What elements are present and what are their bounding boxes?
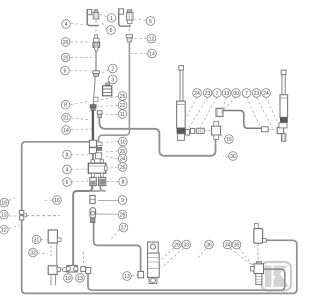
- leader line 13: [134, 38, 147, 40]
- callout 10: [64, 274, 73, 283]
- hose from bracket2 elbow down and left to stack: [99, 41, 130, 142]
- svg-text:21: 21: [63, 116, 69, 122]
- svg-text:6: 6: [66, 180, 69, 186]
- left cylinder body: [177, 101, 186, 140]
- chain fitting a: [190, 128, 194, 133]
- svg-text:11: 11: [120, 112, 125, 118]
- assembly dashes below F2: [129, 24, 131, 34]
- callout 13: [76, 274, 85, 283]
- callout 3: [109, 75, 118, 84]
- leader line 17: [103, 113, 118, 116]
- leader line 20: [106, 157, 118, 159]
- callout 34: [118, 154, 127, 163]
- bracket B1: [87, 10, 99, 26]
- svg-text:20: 20: [63, 56, 69, 62]
- dashes: [205, 130, 211, 132]
- chain fitting b: [197, 128, 205, 133]
- leader line 33: [41, 239, 48, 242]
- svg-text:30: 30: [233, 91, 239, 97]
- leader line 48: [247, 97, 261, 126]
- elbow above cross: [216, 108, 223, 116]
- plug fitting PF: [97, 111, 102, 118]
- leader line 16: [97, 106, 118, 107]
- svg-text:23: 23: [254, 91, 260, 97]
- line below nut N1: [93, 76, 95, 104]
- leader line 21: [107, 167, 118, 169]
- svg-text:13: 13: [124, 274, 130, 280]
- callout 22: [118, 101, 127, 110]
- svg-text:16: 16: [54, 198, 60, 204]
- elbow at hose end near bracket: [138, 271, 144, 277]
- callout 1: [107, 13, 116, 22]
- right cylinder rod: [281, 70, 286, 95]
- svg-text:26: 26: [63, 40, 69, 46]
- svg-text:33: 33: [184, 243, 190, 249]
- svg-text:8: 8: [66, 153, 69, 159]
- svg-text:15: 15: [226, 137, 232, 143]
- callout 32: [29, 248, 38, 257]
- callout 13: [123, 272, 132, 281]
- nut N2 dark: [90, 105, 96, 111]
- callout 5: [146, 17, 155, 26]
- dashes to right cylinder elbow: [269, 129, 277, 131]
- leader line 34: [38, 252, 49, 255]
- svg-text:7: 7: [245, 91, 248, 97]
- assembly dashes below F1: [95, 20, 97, 35]
- leader line 52: [223, 156, 229, 157]
- callout 30: [232, 89, 241, 98]
- callout 2: [109, 64, 118, 73]
- svg-text:31: 31: [34, 238, 40, 244]
- svg-text:5: 5: [110, 28, 113, 34]
- left cylinder rod: [179, 66, 184, 102]
- tall box accumulator: [48, 230, 61, 266]
- svg-text:36: 36: [230, 154, 236, 160]
- leader line 10: [134, 19, 146, 21]
- callout 4: [62, 20, 71, 29]
- leader line 47: [223, 97, 237, 110]
- callout 36: [229, 152, 238, 161]
- leader line 45: [200, 97, 217, 127]
- port fitting right below valve: [98, 177, 105, 185]
- svg-text:5: 5: [149, 19, 152, 25]
- leader line 6: [71, 118, 90, 120]
- hose from gauge area down right to elbow near bracket: [94, 223, 141, 272]
- leader line 40: [197, 249, 206, 260]
- leader line 44: [189, 97, 208, 128]
- valve block VB: [88, 160, 107, 177]
- leader line 8: [100, 15, 107, 17]
- svg-text:24: 24: [194, 91, 200, 97]
- leader line 30: [9, 197, 18, 201]
- svg-text:27: 27: [121, 226, 127, 232]
- leader lines: [70, 15, 147, 182]
- callout circles: [0, 13, 270, 282]
- nut N1: [93, 71, 100, 76]
- leader line 26: [72, 154, 89, 157]
- callout 7: [213, 89, 222, 98]
- leader line 49: [257, 97, 273, 128]
- gauge cylinder: [90, 208, 96, 223]
- callout 13: [222, 89, 231, 98]
- leader line 11: [100, 70, 109, 74]
- svg-text:29: 29: [174, 243, 180, 249]
- cross fitting: [212, 122, 221, 140]
- bottom right valve: [250, 261, 263, 284]
- line below pump: [95, 51, 97, 70]
- callout 24: [193, 89, 202, 98]
- callout 34: [223, 240, 232, 249]
- link to valve block: [92, 154, 94, 163]
- svg-text:7: 7: [216, 91, 219, 97]
- svg-text:23: 23: [205, 91, 211, 97]
- watermark logo: [262, 262, 292, 291]
- callout 8: [63, 150, 72, 159]
- svg-text:35: 35: [234, 243, 240, 249]
- tee T1: [89, 140, 102, 147]
- svg-text:4: 4: [65, 22, 68, 28]
- leader line 4: [70, 70, 91, 72]
- svg-text:6: 6: [64, 69, 67, 75]
- fitting F1 on bracket B1: [93, 10, 99, 19]
- callout 25: [118, 147, 127, 156]
- leader line 38: [159, 248, 175, 262]
- callout 6: [61, 66, 70, 75]
- callout 23: [252, 89, 261, 98]
- callout 15: [225, 135, 234, 144]
- box2 pump bottom: [48, 266, 66, 286]
- callout 4: [63, 165, 72, 174]
- leader line 42: [239, 248, 255, 268]
- leader line 5: [71, 102, 89, 105]
- svg-text:1: 1: [110, 16, 113, 22]
- leader line 29: [45, 199, 52, 202]
- callout 8: [119, 177, 128, 186]
- leader line 27: [72, 168, 88, 171]
- svg-text:32: 32: [30, 251, 36, 257]
- callout 26: [61, 38, 70, 47]
- svg-text:16: 16: [2, 201, 8, 207]
- svg-text:14: 14: [63, 128, 69, 134]
- callout 28: [118, 210, 127, 219]
- callout 14: [148, 49, 157, 58]
- leader line 3: [71, 57, 93, 59]
- leader line 14: [131, 53, 147, 55]
- leader line 50: [266, 97, 280, 126]
- leader line 2: [71, 41, 91, 43]
- right cylinder elbow: [277, 127, 286, 141]
- leader line 22: [107, 181, 119, 183]
- callout 8: [61, 100, 70, 109]
- svg-text:25: 25: [120, 94, 126, 100]
- callout 23: [203, 89, 212, 98]
- callout 5: [107, 26, 116, 35]
- leader line 1: [71, 23, 87, 25]
- leader line 15: [99, 97, 118, 101]
- callout 33: [182, 240, 191, 249]
- elbow fitting E2 top of hose: [126, 35, 132, 42]
- callout 11: [118, 110, 127, 119]
- svg-text:13: 13: [224, 91, 230, 97]
- small fitting SF: [94, 97, 98, 101]
- callout 10: [119, 137, 128, 146]
- leader line 18: [104, 142, 119, 143]
- callout 29: [173, 240, 182, 249]
- svg-text:22: 22: [120, 103, 126, 109]
- leader line 28: [72, 181, 89, 182]
- svg-text:13: 13: [77, 276, 83, 282]
- callout 26: [118, 163, 127, 172]
- svg-text:12: 12: [1, 228, 7, 234]
- port fitting left below valve: [90, 177, 96, 185]
- hose from valve left port looping down to chain cross: [73, 186, 92, 266]
- chain small fitting: [81, 267, 86, 272]
- svg-text:3: 3: [111, 78, 114, 84]
- svg-text:8: 8: [64, 103, 67, 109]
- leader line 37: [132, 275, 138, 276]
- svg-text:2: 2: [111, 67, 114, 73]
- leader line 9: [101, 22, 107, 29]
- bottom right box component: [254, 224, 266, 263]
- leader line 51: [221, 134, 226, 141]
- chain cross fitting: [66, 265, 78, 272]
- dashes below gauge: [82, 252, 84, 264]
- svg-text:34: 34: [225, 243, 231, 249]
- callout 12: [147, 34, 156, 43]
- chain elbow fitting: [86, 268, 91, 274]
- svg-text:8: 8: [122, 180, 125, 186]
- battery box BB: [103, 83, 112, 96]
- callout 36: [205, 240, 214, 249]
- leader line 35: [69, 272, 71, 274]
- right cylinder body: [279, 95, 288, 128]
- elbow stub from right port: [89, 186, 106, 191]
- dashes chain: [61, 268, 67, 270]
- callout 13: [0, 210, 8, 219]
- svg-text:26: 26: [120, 165, 126, 171]
- dashed line right of tee: [26, 215, 60, 217]
- svg-text:10: 10: [65, 276, 71, 282]
- svg-text:28: 28: [120, 213, 126, 219]
- callout 25: [118, 92, 127, 101]
- callout 12: [0, 225, 8, 234]
- bracket B2: [119, 9, 131, 26]
- svg-text:10: 10: [120, 140, 126, 146]
- leader line 43: [184, 97, 197, 122]
- coupler on centerline: [90, 186, 95, 204]
- callout 6: [63, 178, 72, 187]
- mounting bracket bottom center: [148, 242, 160, 284]
- hose outer loop from tee stack to bottom-right box: [22, 142, 297, 294]
- callout 21: [62, 113, 71, 122]
- dashes: [195, 130, 202, 132]
- fitting F2 on bracket B2: [126, 10, 133, 24]
- hose from plug down, right, loop under cylinder to cross: [99, 117, 215, 155]
- leader line 32: [9, 225, 19, 229]
- callout 20: [61, 53, 70, 62]
- svg-text:24: 24: [263, 91, 269, 97]
- leader line 12: [107, 81, 109, 85]
- svg-text:34: 34: [120, 157, 126, 163]
- hose bottom inner from chain elbow to bottom-right valve: [88, 269, 285, 290]
- leader line 36: [81, 272, 84, 274]
- leader line 46: [217, 97, 227, 125]
- leader line 31: [9, 215, 18, 217]
- callout 27: [119, 223, 128, 232]
- svg-text:4: 4: [66, 168, 69, 174]
- callout 16: [53, 196, 62, 205]
- elbow E3 + side fitting: [89, 147, 101, 159]
- svg-text:12: 12: [149, 37, 155, 43]
- inline pump P1: [93, 35, 100, 51]
- leader line 19: [106, 151, 118, 152]
- callout 35: [232, 240, 241, 249]
- leader line 25: [110, 230, 120, 241]
- leader line 41: [230, 248, 252, 265]
- tube end fitting: [261, 127, 268, 132]
- svg-text:36: 36: [206, 243, 212, 249]
- callout 7: [242, 89, 251, 98]
- svg-text:14: 14: [149, 52, 155, 58]
- leader line 7: [71, 129, 92, 130]
- callout 24: [262, 89, 271, 98]
- tee on outer left line: [19, 211, 26, 220]
- callout 31: [32, 235, 41, 244]
- callout 9: [118, 196, 127, 205]
- left cylinder port fitting: [185, 130, 189, 135]
- svg-text:13: 13: [1, 213, 7, 219]
- dark supply line: [92, 110, 94, 140]
- callout 16: [0, 198, 9, 207]
- steel tube from cross elbow to right cylinder: [223, 111, 262, 129]
- callout 14: [62, 126, 71, 135]
- leader line 39: [161, 249, 184, 269]
- svg-text:9: 9: [121, 198, 124, 204]
